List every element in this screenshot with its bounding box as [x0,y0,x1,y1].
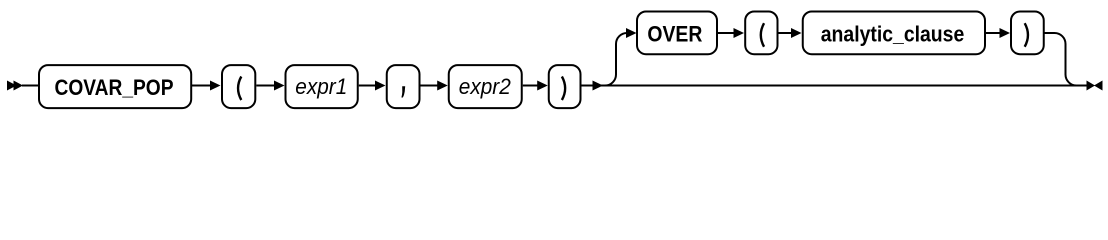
wire arrow to ( [191,81,220,91]
wire arrow to comma [359,81,386,91]
wire arrow to analytic_clause [779,28,802,38]
punctuation box ( top [745,12,777,55]
wire arrow to ) top [986,28,1010,38]
wire arrow after ) to branch point [582,81,604,91]
svg-text:expr1: expr1 [295,74,347,99]
svg-text:expr2: expr2 [459,74,511,99]
main bypass wire [600,85,1087,87]
wire arrow to ) [523,81,548,91]
punctuation box ( [222,65,255,108]
branch wire up to OVER [605,33,628,86]
operand box expr1 [286,65,358,108]
svg-text:OVER: OVER [647,22,702,47]
wire arrow to expr1 [256,81,284,91]
wire arrow to expr2 [421,81,448,91]
operand box expr2 [449,65,522,108]
operand box analytic_clause [803,12,985,55]
end terminal bowtie [1087,81,1103,91]
punctuation box ) [549,65,581,108]
punctuation box comma [387,65,420,108]
start terminal double arrow [7,81,39,91]
branch wire down to main line [1044,33,1080,86]
svg-text:analytic_clause: analytic_clause [821,21,965,46]
keyword box OVER [637,12,717,55]
svg-text:COVAR_POP: COVAR_POP [55,75,174,100]
keyword box COVAR_POP [39,65,191,108]
punctuation box ) top [1011,12,1044,55]
arrowhead into OVER [626,28,637,38]
wire arrow to ( top [717,28,744,38]
